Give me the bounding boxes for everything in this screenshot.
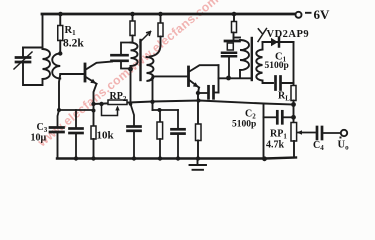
svg-text:6V: 6V: [314, 7, 331, 22]
svg-text:4.7k: 4.7k: [266, 140, 285, 151]
svg-text:VD2AP9: VD2AP9: [267, 29, 310, 40]
svg-text:5100p: 5100p: [232, 120, 256, 130]
svg-text:5100p: 5100p: [265, 61, 289, 71]
svg-text:10k: 10k: [97, 130, 115, 142]
svg-text:RP2: RP2: [110, 91, 127, 103]
svg-text:C4: C4: [313, 140, 324, 152]
svg-text:RL: RL: [278, 91, 290, 103]
svg-text:10μ: 10μ: [31, 133, 47, 144]
svg-text:R1: R1: [65, 25, 77, 37]
svg-text:Uo: Uo: [338, 140, 350, 152]
svg-text:8.2k: 8.2k: [63, 38, 84, 50]
